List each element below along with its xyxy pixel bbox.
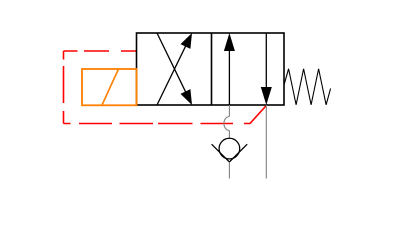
check valve ball (219, 138, 240, 159)
crossed flow path arrow (up-right) (157, 33, 192, 105)
return spring (284, 69, 331, 105)
valve position divider (211, 33, 213, 105)
pilot line (red dashed) left segment (63, 51, 65, 124)
pilot line (red dashed) bottom segment (64, 123, 234, 125)
valve body outline (137, 33, 285, 105)
wire below check valve (228, 162, 230, 179)
check valve seat (V) (212, 144, 248, 162)
port wire A continues to check valve (228, 131, 230, 139)
port wire A (gray, upper) (228, 105, 230, 117)
straight flow path arrow (up) (224, 33, 235, 105)
wire hop over pilot line (224, 117, 230, 131)
port wire B (gray, right) (265, 105, 267, 179)
pilot line (red dashed) diagonal to valve port (244, 106, 266, 124)
crossed flow path arrow (down-right) (157, 33, 192, 105)
solenoid coil box (orange) (82, 69, 137, 105)
pilot line (red dashed) top segment (64, 50, 137, 52)
solenoid slash (102, 69, 119, 105)
straight flow path arrow (down) (261, 33, 272, 105)
